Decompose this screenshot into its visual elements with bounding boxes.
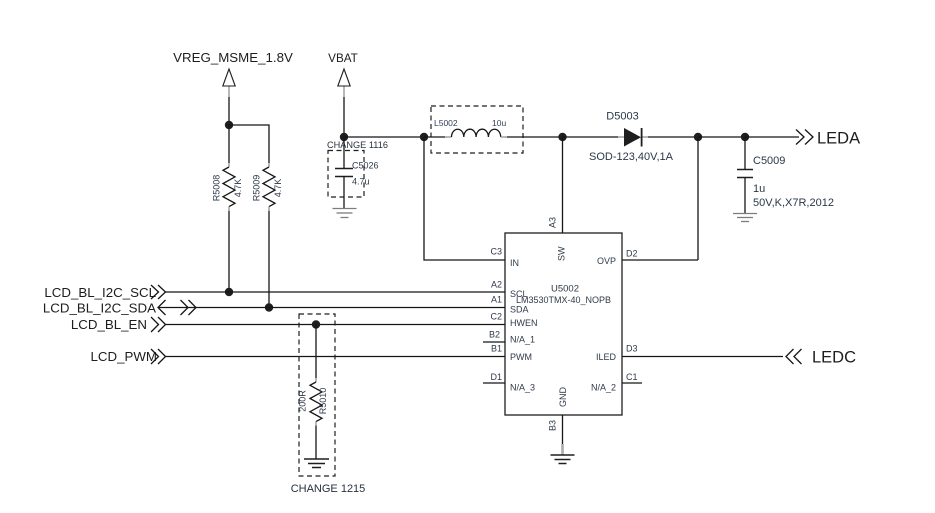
- wire C5026 bottom lead: [343, 177, 345, 209]
- port chevrons LEDC: [786, 349, 802, 364]
- power symbol VBAT: [338, 69, 350, 97]
- wire OVP junction to C5009 junction: [698, 136, 745, 138]
- svg-text:10u: 10u: [492, 118, 506, 128]
- svg-text:OVP: OVP: [597, 256, 616, 266]
- wire R5009 bottom to SDA line: [268, 211, 270, 308]
- wire diode cathode to OVP junction: [643, 136, 699, 138]
- inductor L5002: [452, 129, 501, 137]
- svg-text:HWEN: HWEN: [510, 318, 538, 328]
- junction on EN line for R5010: [312, 320, 320, 328]
- wire VREG down to junction: [228, 97, 230, 125]
- svg-text:N/A_2: N/A_2: [591, 383, 616, 393]
- resistor R5010: [310, 378, 322, 426]
- svg-text:B1: B1: [491, 344, 502, 354]
- svg-text:R5009: R5009: [252, 175, 262, 202]
- junction C5009 node: [741, 133, 749, 141]
- wire C5026 top lead: [343, 137, 345, 169]
- svg-text:A3: A3: [548, 217, 558, 228]
- svg-text:C5009: C5009: [753, 155, 785, 167]
- svg-text:B2: B2: [489, 330, 500, 340]
- power symbol VREG_MSME_1.8V: [223, 69, 235, 97]
- wire into inductor: [424, 136, 452, 138]
- svg-text:SDA: SDA: [510, 305, 529, 315]
- wire PWM line: [166, 356, 506, 358]
- svg-text:4.7u: 4.7u: [352, 177, 370, 187]
- svg-text:4.7K: 4.7K: [273, 179, 283, 198]
- svg-text:4.7K: 4.7K: [233, 179, 243, 198]
- wire R5010 bottom lead: [315, 426, 317, 459]
- wire to LEDA port: [745, 136, 799, 138]
- diode D5003: [624, 128, 642, 147]
- svg-text:LCD_BL_I2C_SDA: LCD_BL_I2C_SDA: [43, 301, 156, 316]
- svg-text:C5026: C5026: [352, 161, 379, 171]
- svg-text:U5002: U5002: [551, 284, 579, 295]
- svg-text:SW: SW: [557, 246, 567, 261]
- wire ILED to LEDC port: [622, 356, 783, 358]
- svg-text:D3: D3: [626, 344, 638, 354]
- svg-text:SCL: SCL: [510, 289, 528, 299]
- svg-text:C2: C2: [490, 312, 502, 322]
- wire OVP vertical: [697, 137, 699, 260]
- svg-text:LCD_BL_EN: LCD_BL_EN: [71, 317, 147, 332]
- wire VBAT down to junction: [343, 97, 345, 137]
- svg-text:LCD_PWM: LCD_PWM: [91, 349, 158, 364]
- ground below B3: [551, 455, 575, 464]
- svg-text:R5008: R5008: [212, 175, 222, 202]
- resistor R5008: [223, 163, 235, 211]
- svg-text:C1: C1: [626, 372, 638, 382]
- port chevrons LEDA: [796, 130, 813, 145]
- wire EN line: [166, 324, 506, 326]
- wire R5008 top lead: [228, 125, 230, 163]
- capacitor C5009: [737, 170, 753, 178]
- junction node VREG: [225, 121, 233, 129]
- wire R5008 bottom to SCL line: [228, 211, 230, 292]
- svg-text:GND: GND: [558, 387, 568, 408]
- wire out of inductor to SW node: [501, 136, 563, 138]
- wire SW node to diode anode: [563, 136, 625, 138]
- capacitor C5026: [335, 169, 353, 177]
- svg-text:D5003: D5003: [606, 111, 638, 123]
- dashed box around C5026: [328, 151, 364, 198]
- svg-text:LM3530TMX-40_NOPB: LM3530TMX-40_NOPB: [516, 295, 611, 305]
- wire OVP to D2 pin: [622, 259, 698, 261]
- svg-text:C3: C3: [490, 247, 502, 257]
- svg-text:L5002: L5002: [434, 118, 458, 128]
- svg-text:LCD_BL_I2C_SCL: LCD_BL_I2C_SCL: [44, 285, 156, 300]
- svg-text:SOD-123,40V,1A: SOD-123,40V,1A: [589, 151, 674, 163]
- resistor R5009: [263, 163, 275, 211]
- svg-text:LEDC: LEDC: [812, 349, 856, 367]
- wire C3 pin from inductor input: [424, 137, 505, 260]
- wire EN junction down to R5010: [315, 325, 317, 379]
- wire C5009 bottom lead: [744, 178, 746, 214]
- svg-text:D2: D2: [626, 249, 638, 259]
- wire VBAT junction to inductor node: [344, 136, 424, 138]
- svg-text:IN: IN: [510, 258, 519, 268]
- port chevrons LCD_PWM: [151, 349, 166, 364]
- svg-text:200R: 200R: [298, 390, 308, 412]
- dashed box around R5010: [299, 314, 335, 476]
- junction SW node: [558, 133, 566, 141]
- wire branch to R5009: [229, 125, 269, 163]
- svg-text:N/A_3: N/A_3: [510, 383, 535, 393]
- port chevrons LCD_BL_EN: [151, 317, 166, 332]
- junction on SCL line: [225, 288, 233, 296]
- ground below C5026: [333, 209, 357, 218]
- ground below C5009: [733, 214, 757, 222]
- wire SCL line: [166, 291, 506, 293]
- svg-text:VBAT: VBAT: [328, 52, 358, 65]
- junction OVP node: [694, 133, 702, 141]
- pin stub D1: [483, 382, 505, 384]
- wire B3 GND pin: [562, 415, 564, 455]
- port chevrons LCD_BL_I2C_SDA bidirectional: [158, 300, 196, 315]
- pin stub C1: [622, 382, 642, 384]
- svg-text:LEDA: LEDA: [817, 130, 860, 148]
- op-amp U5002 body: [505, 233, 622, 415]
- junction node VBAT: [340, 133, 348, 141]
- wire SDA line: [158, 307, 505, 309]
- svg-text:A2: A2: [491, 280, 502, 290]
- svg-text:ILED: ILED: [596, 352, 617, 362]
- svg-text:1u: 1u: [753, 183, 765, 195]
- dashed box around L5002: [431, 106, 523, 153]
- svg-text:B3: B3: [548, 420, 558, 431]
- svg-text:D1: D1: [490, 372, 502, 382]
- svg-text:50V,K,X7R,2012: 50V,K,X7R,2012: [753, 197, 834, 209]
- wire A3 SW pin vertical: [562, 137, 564, 233]
- port chevrons LCD_BL_I2C_SCL: [151, 285, 166, 299]
- svg-text:CHANGE 1215: CHANGE 1215: [291, 483, 366, 495]
- pin stub B2: [483, 341, 505, 343]
- svg-text:N/A_1: N/A_1: [510, 335, 535, 345]
- svg-text:A1: A1: [491, 295, 502, 305]
- svg-text:CHANGE 1116: CHANGE 1116: [327, 140, 388, 150]
- svg-text:VREG_MSME_1.8V: VREG_MSME_1.8V: [173, 50, 293, 65]
- ground below R5010: [304, 459, 329, 468]
- wire C5009 top lead: [744, 137, 746, 170]
- junction on SDA line: [265, 303, 273, 311]
- svg-text:PWM: PWM: [510, 352, 532, 362]
- svg-text:R5010: R5010: [318, 388, 328, 415]
- junction inductor input: [420, 133, 428, 141]
